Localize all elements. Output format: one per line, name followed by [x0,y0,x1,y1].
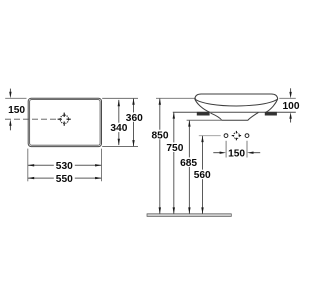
svg-text:685: 685 [180,158,197,169]
dim 850 line [159,98,161,213]
svg-text:530: 530 [56,161,73,172]
svg-text:360: 360 [126,113,143,124]
dim 530 label [54,161,75,173]
basin inner rim (top view) [30,100,101,146]
floor line (hatched bar) [147,214,231,217]
dim 150 (faucet) arrows [213,152,260,154]
svg-text:150: 150 [228,149,245,160]
bowl back rim (front view) [195,94,278,99]
svg-text:850: 850 [152,130,169,141]
dim 530/550 extension lines (below top view) [28,149,102,182]
svg-text:560: 560 [194,170,211,181]
basin outer rim (top view) [28,98,101,146]
drain symbol [58,113,71,126]
dim 360 label [125,112,145,124]
dim 560 extension line [199,135,221,137]
svg-text:100: 100 [283,101,300,112]
svg-text:550: 550 [56,174,73,185]
faucet hole right [245,134,249,138]
dim 150 label [6,105,28,117]
faucet hole left [224,134,228,138]
dim 360 line [132,98,134,146]
bowl front rim edge [195,99,278,106]
dim 685 extension line [187,119,222,121]
svg-text:750: 750 [166,143,183,154]
dim 685 label [178,157,199,169]
dim 360/340 extension lines (right of top view) [102,98,138,146]
dim 685 line [188,120,190,214]
dim 750 label [165,142,186,154]
dim 150 arrows [9,89,11,131]
top extension line right (100) [279,97,296,99]
top extension line left (850) [156,97,196,99]
dim 550 label [54,173,75,185]
dim 100 arrows (right) [289,88,291,122]
basin lower boss below counter [211,112,259,120]
bowl left outer wall [195,99,210,112]
dim 100 label [283,101,300,112]
centerline through drain [5,118,60,120]
dim 550 line [28,177,102,179]
dim 850 label [150,130,171,142]
dim 560 label [192,170,213,182]
dim 150 (faucet) label [227,148,247,160]
dim 340 label [109,123,129,135]
countertop line [173,111,296,113]
bowl right outer wall [266,99,278,112]
counter section hatch block left [197,112,210,116]
dim 750 line [173,112,175,214]
svg-text:150: 150 [8,105,25,116]
dim 560 line [201,136,203,214]
dim 150 (faucet) extension lines [226,141,247,158]
dim 530 line [28,164,102,166]
counter section hatch block right [265,112,277,116]
dim 340 line [118,100,120,145]
svg-text:340: 340 [110,123,127,134]
faucet hole center with cross ticks [232,131,241,140]
dim 150 extension line (top edge, left) [5,97,26,99]
